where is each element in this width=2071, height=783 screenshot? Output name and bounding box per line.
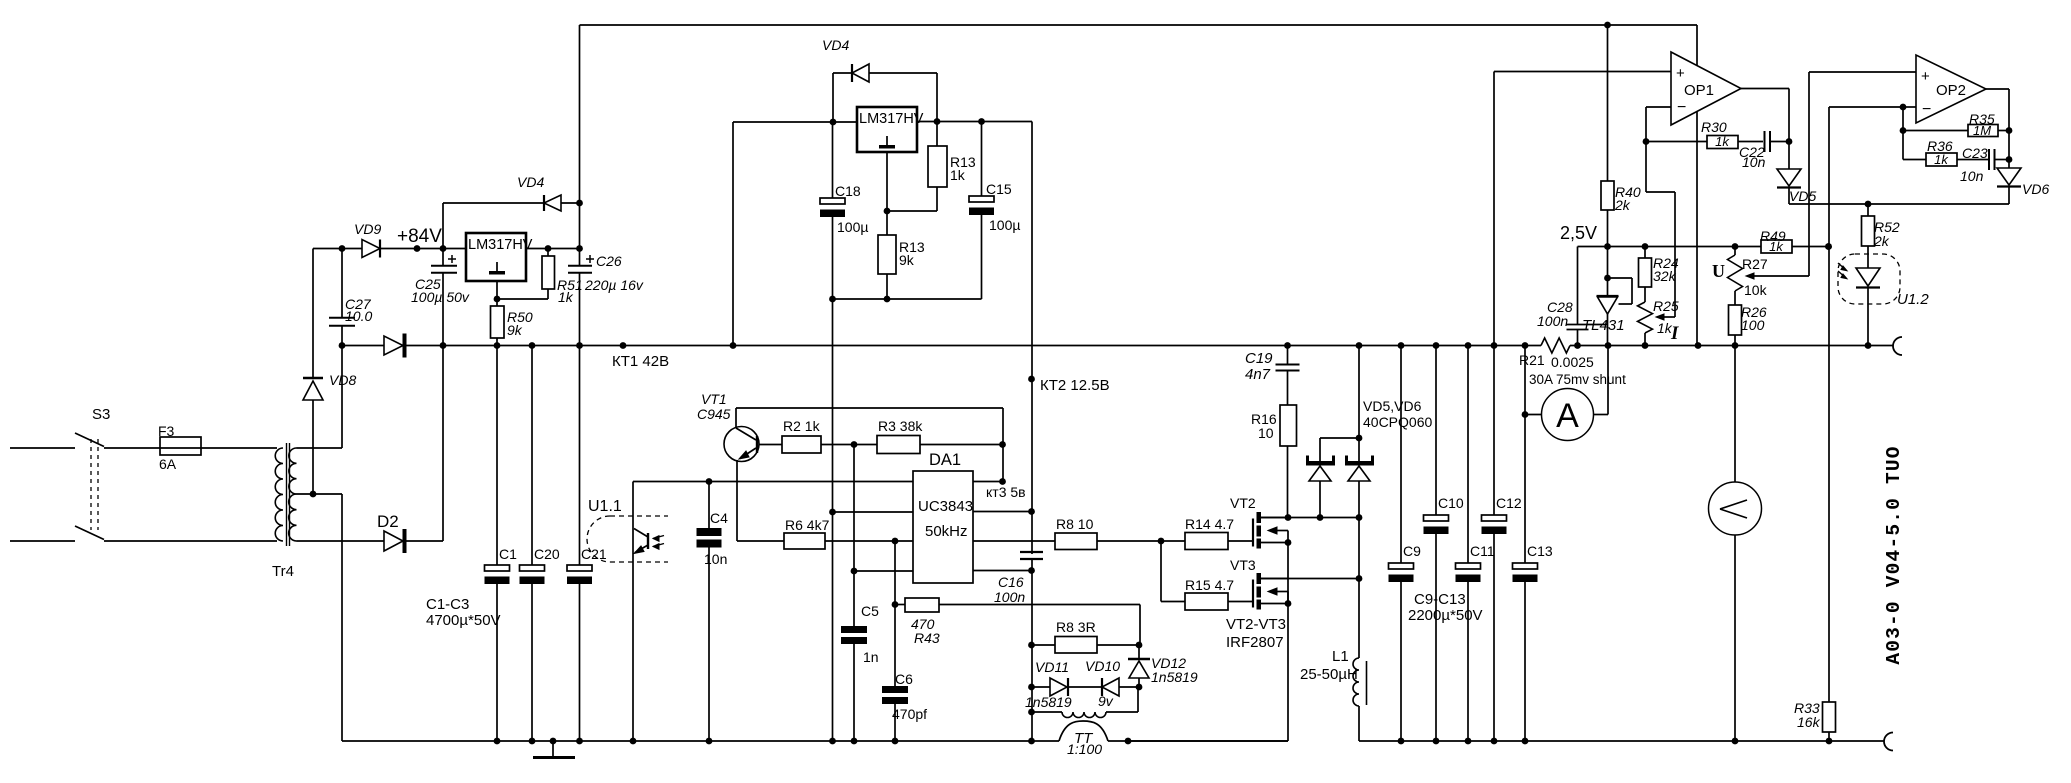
svg-text:R15 4.7: R15 4.7 xyxy=(1185,577,1234,593)
svg-text:R8 3R: R8 3R xyxy=(1056,619,1096,635)
svg-text:U: U xyxy=(1712,261,1725,281)
svg-text:R27: R27 xyxy=(1742,256,1768,272)
svg-text:OP2: OP2 xyxy=(1936,82,1966,99)
svg-text:100µ: 100µ xyxy=(989,217,1020,233)
svg-text:100n: 100n xyxy=(1537,313,1568,329)
svg-text:U1.2: U1.2 xyxy=(1897,291,1929,308)
svg-text:R21: R21 xyxy=(1519,352,1545,368)
svg-text:10n: 10n xyxy=(1742,154,1766,170)
svg-text:LM317HV: LM317HV xyxy=(859,111,924,127)
svg-text:C15: C15 xyxy=(986,181,1012,197)
svg-text:C12: C12 xyxy=(1496,495,1522,511)
svg-text:DA1: DA1 xyxy=(929,451,961,469)
svg-text:1n5819: 1n5819 xyxy=(1151,669,1198,685)
svg-text:C16: C16 xyxy=(998,574,1024,590)
svg-text:C1: C1 xyxy=(499,546,517,562)
svg-text:2k: 2k xyxy=(1614,197,1631,213)
svg-text:2k: 2k xyxy=(1873,233,1890,249)
svg-text:R49: R49 xyxy=(1760,228,1786,244)
svg-text:VD4: VD4 xyxy=(517,174,544,190)
svg-text:VD11: VD11 xyxy=(1035,659,1069,675)
svg-text:C23: C23 xyxy=(1962,145,1988,161)
svg-text:1k: 1k xyxy=(558,289,574,305)
svg-text:VD5: VD5 xyxy=(1789,188,1816,204)
svg-text:100µ 50v: 100µ 50v xyxy=(411,289,470,305)
svg-text:470pf: 470pf xyxy=(892,706,927,722)
svg-text:R2 1k: R2 1k xyxy=(783,418,821,434)
svg-text:C20: C20 xyxy=(534,546,560,562)
svg-text:UC3843: UC3843 xyxy=(918,498,973,515)
svg-text:50kHz: 50kHz xyxy=(925,523,968,540)
svg-text:R14 4.7: R14 4.7 xyxy=(1185,516,1234,532)
svg-text:C5: C5 xyxy=(861,603,879,619)
svg-text:R43: R43 xyxy=(914,630,940,646)
svg-text:−: − xyxy=(1677,99,1686,116)
svg-text:C10: C10 xyxy=(1438,495,1464,511)
svg-text:2,5V: 2,5V xyxy=(1560,223,1597,243)
svg-text:VD10: VD10 xyxy=(1085,658,1120,674)
svg-text:R6 4k7: R6 4k7 xyxy=(785,517,830,533)
svg-text:C6: C6 xyxy=(895,671,913,687)
svg-text:C18: C18 xyxy=(835,183,861,199)
svg-text:OP1: OP1 xyxy=(1684,82,1714,99)
svg-text:30A 75mv shunt: 30A 75mv shunt xyxy=(1529,372,1626,387)
svg-text:C13: C13 xyxy=(1527,543,1553,559)
svg-text:C26: C26 xyxy=(596,253,622,269)
svg-text:VD5,VD6: VD5,VD6 xyxy=(1363,398,1422,414)
svg-text:9v: 9v xyxy=(1098,693,1114,709)
svg-text:A03-0 V04-5.0 TUO: A03-0 V04-5.0 TUO xyxy=(1883,445,1905,664)
svg-text:10n: 10n xyxy=(1960,168,1984,184)
svg-text:220µ 16v: 220µ 16v xyxy=(584,277,644,293)
svg-text:I: I xyxy=(1670,323,1679,344)
svg-text:9k: 9k xyxy=(899,252,915,268)
svg-text:VD6: VD6 xyxy=(2022,181,2049,197)
svg-text:VT2: VT2 xyxy=(1230,495,1256,511)
svg-text:1k: 1k xyxy=(1934,152,1949,167)
svg-text:КТ2 12.5В: КТ2 12.5В xyxy=(1040,377,1110,394)
svg-text:R36: R36 xyxy=(1927,138,1953,154)
svg-text:4n7: 4n7 xyxy=(1245,366,1271,383)
svg-text:−: − xyxy=(1922,101,1931,118)
svg-text:IRF2807: IRF2807 xyxy=(1226,634,1284,651)
svg-text:25-50µH: 25-50µH xyxy=(1300,666,1358,683)
svg-text:32k: 32k xyxy=(1653,268,1677,284)
svg-text:U1.1: U1.1 xyxy=(588,498,622,515)
svg-text:Tr4: Tr4 xyxy=(272,563,294,580)
svg-text:C19: C19 xyxy=(1245,350,1273,367)
svg-text:C21: C21 xyxy=(581,546,607,562)
svg-text:+: + xyxy=(1921,68,1930,85)
svg-text:16k: 16k xyxy=(1797,714,1821,730)
svg-text:100µ: 100µ xyxy=(837,219,868,235)
svg-text:КТ1 42В: КТ1 42В xyxy=(612,353,669,370)
svg-text:C4: C4 xyxy=(710,510,728,526)
svg-text:R8 10: R8 10 xyxy=(1056,516,1094,532)
svg-text:LM317HV: LM317HV xyxy=(468,237,533,253)
svg-text:1n: 1n xyxy=(863,649,879,665)
svg-text:VT2-VT3: VT2-VT3 xyxy=(1226,616,1286,633)
svg-text:C1-C3: C1-C3 xyxy=(426,596,469,613)
svg-text:L1: L1 xyxy=(1332,648,1349,665)
svg-text:S3: S3 xyxy=(92,406,110,423)
svg-text:R30: R30 xyxy=(1701,119,1727,135)
svg-text:TL431: TL431 xyxy=(1582,317,1625,334)
svg-text:R35: R35 xyxy=(1969,111,1995,127)
svg-text:C11: C11 xyxy=(1470,543,1495,559)
svg-text:C9: C9 xyxy=(1403,543,1421,559)
svg-text:F3: F3 xyxy=(158,423,175,439)
svg-text:1:100: 1:100 xyxy=(1067,741,1102,757)
svg-text:100n: 100n xyxy=(994,589,1025,605)
svg-text:+: + xyxy=(1676,65,1685,82)
svg-text:1k: 1k xyxy=(1715,134,1730,149)
svg-text:40CPQ060: 40CPQ060 xyxy=(1363,414,1432,430)
svg-text:C945: C945 xyxy=(697,406,731,422)
svg-text:кт3 5в: кт3 5в xyxy=(986,484,1026,500)
svg-text:1k: 1k xyxy=(950,167,966,183)
svg-text:4700µ*50V: 4700µ*50V xyxy=(426,612,501,629)
svg-text:10.0: 10.0 xyxy=(345,308,372,324)
svg-text:R3 38k: R3 38k xyxy=(878,418,923,434)
svg-text:VT3: VT3 xyxy=(1230,557,1256,573)
svg-text:6A: 6A xyxy=(159,456,177,472)
svg-text:10n: 10n xyxy=(704,551,727,567)
svg-text:10k: 10k xyxy=(1744,282,1768,298)
svg-text:VT1: VT1 xyxy=(701,391,727,407)
svg-text:+84V: +84V xyxy=(397,226,442,247)
svg-text:9k: 9k xyxy=(507,322,523,338)
svg-text:VD4: VD4 xyxy=(822,37,849,53)
svg-text:10: 10 xyxy=(1258,425,1274,441)
svg-text:2200µ*50V: 2200µ*50V xyxy=(1408,607,1483,624)
svg-text:100: 100 xyxy=(1741,317,1765,333)
svg-text:A: A xyxy=(1556,397,1579,435)
svg-text:C9-C13: C9-C13 xyxy=(1414,591,1466,608)
svg-text:0.0025: 0.0025 xyxy=(1551,354,1594,370)
svg-text:D2: D2 xyxy=(377,512,399,531)
svg-text:1n5819: 1n5819 xyxy=(1025,694,1072,710)
svg-text:VD9: VD9 xyxy=(354,221,381,237)
